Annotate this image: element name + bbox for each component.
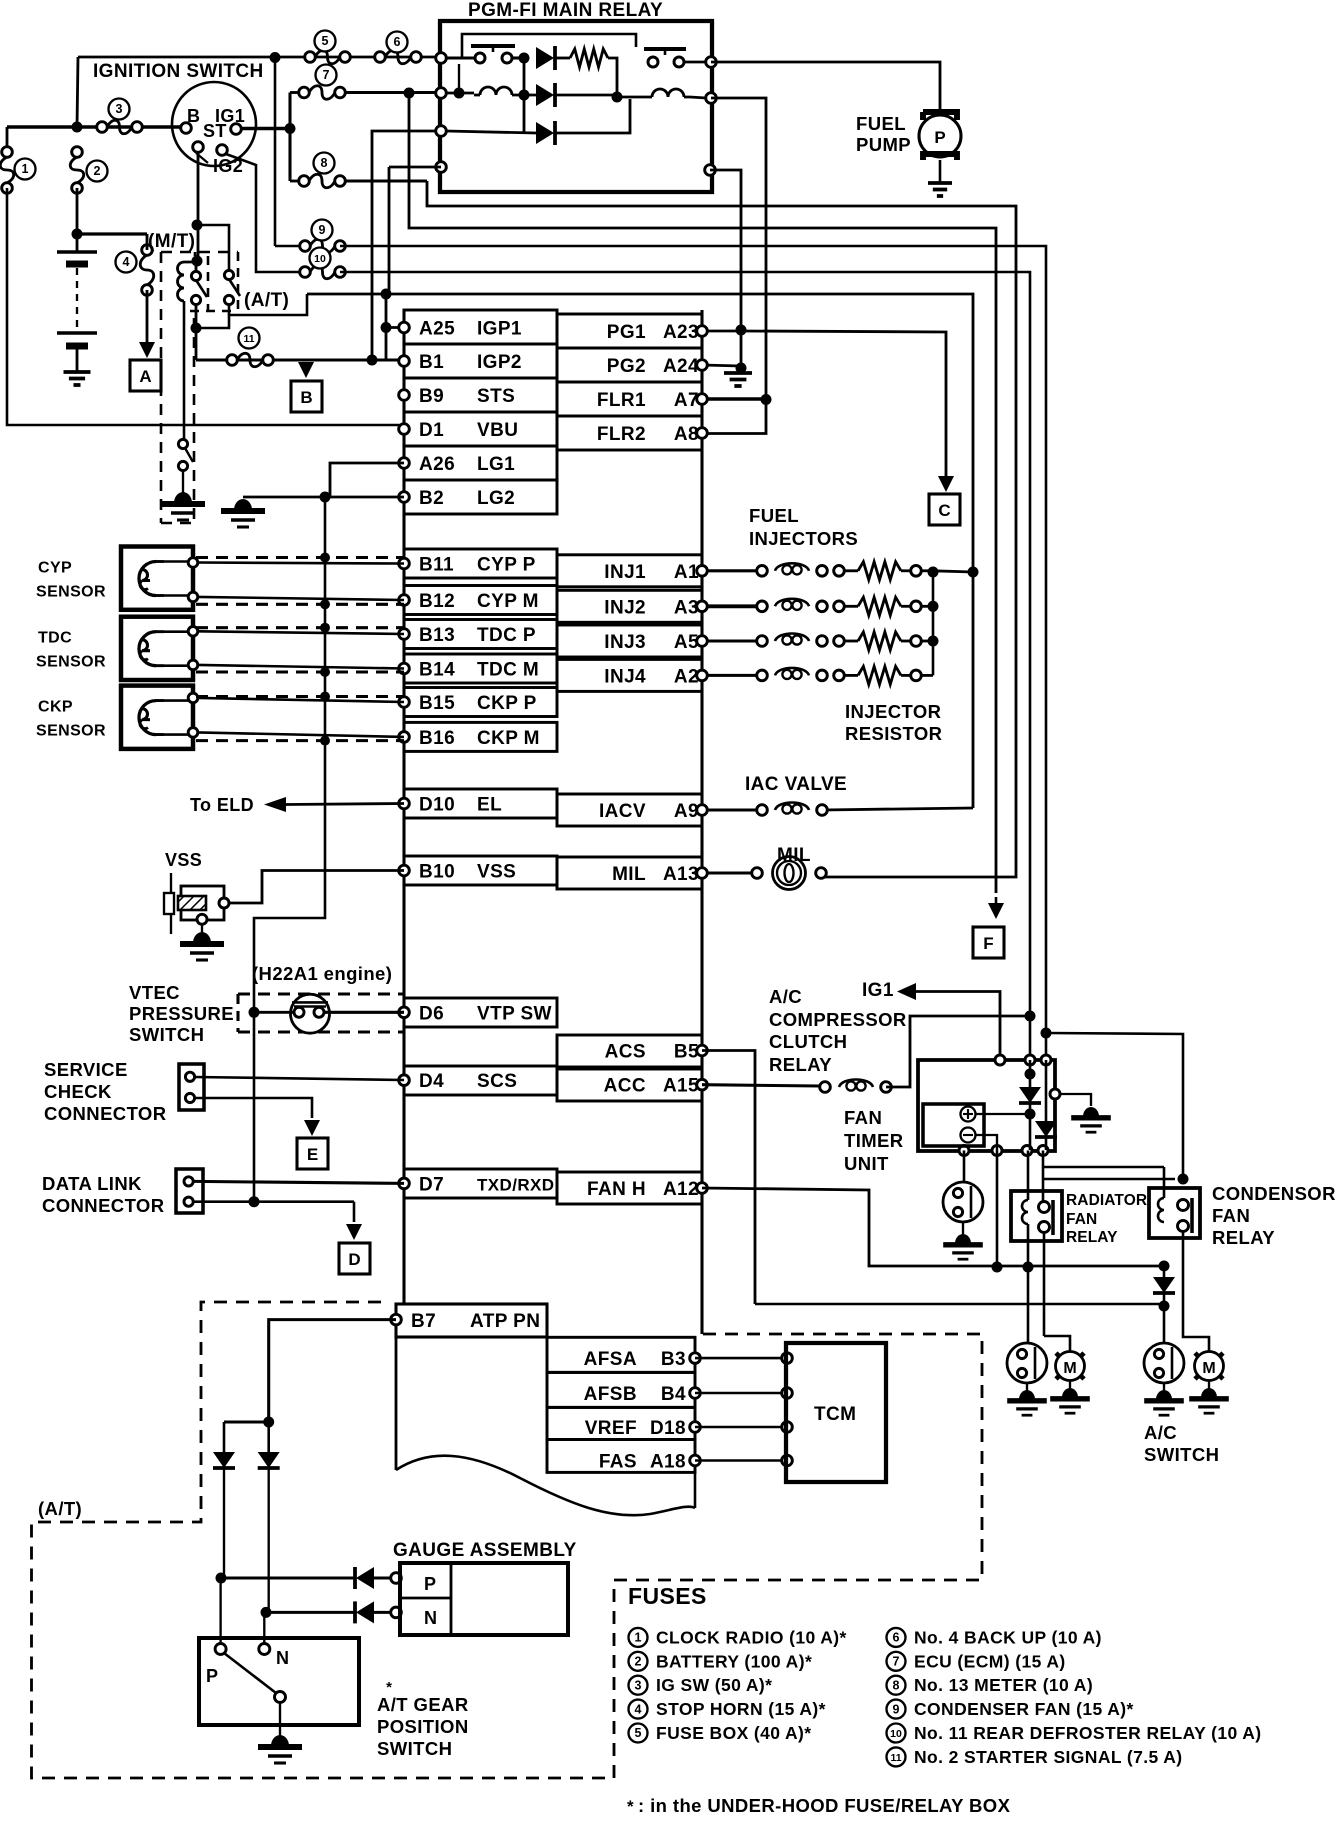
svg-text:D: D [348,1250,360,1269]
radiator fan motor [1056,1352,1085,1381]
ground ATP [258,1735,302,1763]
ECU pin B16 CKP M [399,722,557,751]
label SERVICE CHECK CONNECTOR [44,1059,167,1124]
node ACC x1030 [1025,1011,1052,1039]
ECU pin AFSB B4 [547,1372,700,1407]
wire PG1 to C [741,331,946,478]
wire diode pair top [224,1420,269,1423]
svg-text:IGP2: IGP2 [477,352,522,373]
radiator relay contact [1039,1200,1054,1235]
service check connector [179,1064,204,1110]
label (M/T) [148,231,195,252]
label FUSES [628,1583,707,1609]
IAC valve coil [707,803,827,816]
svg-text:A25: A25 [419,319,455,340]
ECU torn edge wave [396,1456,695,1516]
svg-text:TXD/RXD: TXD/RXD [477,1175,554,1194]
svg-text:A26: A26 [419,454,455,475]
wire battery feed to fuse4 [77,232,147,235]
wire CKP M [198,732,404,737]
wire rad contact [1043,1151,1070,1353]
ignition contact B [181,123,192,134]
wire LG1 [330,463,404,497]
relay wire d3 out [555,99,630,133]
label (A/T) bottom [38,1498,82,1519]
arrow to B [298,362,314,378]
svg-text:SWITCH: SWITCH [129,1024,204,1045]
wire TDC P [198,631,404,634]
svg-text:1: 1 [22,162,29,176]
svg-text:BATTERY (100 A)*: BATTERY (100 A)* [656,1651,812,1671]
ECU pin AFSA B3 [547,1337,700,1372]
svg-text:FAN: FAN [1066,1211,1097,1228]
wire condensor coil feed [1044,1166,1164,1169]
box B [291,381,322,412]
svg-text:TCM: TCM [814,1404,856,1425]
fuse F9 label [312,220,333,241]
wire N row [266,1611,355,1614]
fuse F11 STARTER SIGNAL [227,353,274,367]
svg-text:SWITCH: SWITCH [1144,1444,1219,1465]
box C [929,494,960,525]
svg-text:B2: B2 [419,488,444,509]
svg-text:B1: B1 [419,352,444,373]
AC relay coil [820,1080,892,1093]
svg-text:EL: EL [477,795,502,816]
box D [339,1243,370,1274]
gauge diode P [355,1567,401,1589]
svg-text:RADIATOR: RADIATOR [1066,1192,1147,1209]
wire IGP1 feed [381,289,405,361]
svg-text:(M/T): (M/T) [148,231,195,252]
ECU pin B13 TDC P [399,620,557,649]
VTEC pressure switch [291,994,330,1033]
svg-text:E: E [307,1145,318,1164]
wire MT coil down [183,301,186,440]
fan timer top pins [995,1055,1051,1065]
fuse F8 label [314,153,335,174]
wire B7 ATP [263,1320,396,1428]
label gauge P [424,1574,436,1594]
relay edge pins right [705,57,717,176]
wire LG2 [243,492,404,503]
wire cond motor [1183,1232,1209,1352]
svg-text:FAS: FAS [599,1452,637,1473]
svg-text:7: 7 [323,68,330,82]
svg-text:B9: B9 [419,386,444,407]
svg-text:CYP M: CYP M [477,591,539,612]
wire VBU backup line [7,188,404,429]
ECU pin PG2 A24 [557,348,707,382]
ground fuel pump [928,183,952,196]
MIL lamp [707,857,826,890]
AT diode N [258,1422,280,1612]
svg-text:CYP P: CYP P [477,555,536,576]
legend fuse 11 [887,1747,1183,1767]
node FLR1 [761,394,772,405]
svg-text:9: 9 [893,1702,900,1716]
svg-text:B: B [187,106,200,126]
ECU pin IACV A9 [557,794,707,826]
ground VSS [180,932,224,960]
relay contact1 [471,46,515,63]
wire ACC row [702,1085,820,1086]
svg-text:11: 11 [890,1752,901,1764]
relay diode stack feed [519,58,530,133]
ECU pin B10 VSS [399,856,557,885]
wire VSS [228,871,404,904]
svg-text:IGP1: IGP1 [477,319,522,340]
svg-text:INJ4: INJ4 [604,666,646,687]
wire VSS ground [201,924,203,934]
condensor fan motor [1195,1352,1224,1381]
relay wire res out [608,58,623,103]
fuse F11 label [239,328,260,349]
ECU pin ACC A15 [557,1069,707,1101]
ground cond motor [1189,1380,1229,1413]
ground battery [64,372,91,385]
wire fan timer out1 [996,1151,999,1268]
label GAUGE ASSEMBLY [393,1540,577,1561]
svg-text:VSS: VSS [477,862,516,883]
svg-text:A/C: A/C [769,986,802,1007]
svg-text:DATA LINK: DATA LINK [42,1173,142,1194]
svg-text:4: 4 [635,1702,642,1716]
wire fuse9 row [275,245,305,248]
node fuse11 x372 [367,355,378,366]
wire TCM B3 [695,1353,792,1364]
svg-text:D10: D10 [419,795,455,816]
fuse F6 BACK UP [375,50,422,64]
fan timer bottom pins [959,1146,1048,1156]
svg-text:PG2: PG2 [607,356,646,377]
svg-text:P: P [424,1574,436,1594]
svg-text:ATP PN: ATP PN [470,1311,540,1332]
radiator relay coil [1022,1200,1028,1224]
svg-text:SENSOR: SENSOR [36,723,106,740]
svg-text:*: * [627,1797,634,1816]
fuse F8 METER [299,174,346,188]
wire relay167 down [388,167,391,294]
label PGM-FI MAIN RELAY [468,0,663,21]
legend fuse 4 [629,1699,826,1719]
ground fan timer [1071,1107,1111,1132]
fan timer diode D5 [1035,1060,1057,1150]
fuse F9 CONDENSER FAN [300,239,346,253]
svg-text:1: 1 [635,1631,642,1645]
svg-text:A/T GEAR: A/T GEAR [377,1694,469,1715]
svg-text:PUMP: PUMP [856,134,911,155]
relay wire d2 out [555,94,617,97]
relay coil2 [646,89,690,97]
fuse F10 label [310,248,331,269]
fuse F2 BATTERY [70,147,84,194]
ECU pin A26 LG1 [399,446,557,480]
CKP sensor [121,686,198,749]
label VTEC PRESSURE SWITCH [129,982,234,1045]
legend footnote [627,1795,1011,1816]
fan timer minus [961,1128,976,1143]
label IG1 [215,106,245,126]
relay diode D2 [536,83,555,107]
label RADIATOR FAN RELAY [1066,1192,1147,1246]
svg-text:5: 5 [322,34,329,48]
wire DLC [194,1181,404,1183]
relay diode D3 [536,121,555,145]
svg-text:C: C [938,501,950,520]
radiator fan relay box [1011,1191,1062,1241]
wire fuse9 feed [274,58,277,247]
wire To ELD [264,797,404,812]
ECU pin B15 CKP P [399,688,557,717]
label ATP N [276,1648,289,1668]
label IAC VALVE [745,774,847,795]
svg-text:VREF: VREF [585,1418,637,1439]
svg-text:A1: A1 [674,562,699,583]
arrow to E [304,1120,320,1136]
TCM box [786,1343,886,1482]
ECU edges [404,310,702,1334]
svg-text:11: 11 [243,333,254,345]
ground rad sensor [1007,1383,1047,1415]
label CYP SENSOR [36,560,106,601]
wire relay to FLR [711,98,766,399]
fuel injector INJ2 [707,597,921,615]
ground rad motor [1050,1380,1090,1413]
svg-text:VBU: VBU [477,420,518,441]
wire rad coil [1027,1151,1030,1268]
svg-text:FUEL: FUEL [856,113,906,134]
AT gear position switch box [199,1638,359,1725]
wire CYP M [198,597,404,600]
TDC sensor [121,617,198,680]
relay wire bottom edge ST [389,166,441,169]
fan timer unit box [918,1060,1055,1151]
fuse F4 label [116,252,137,273]
svg-text:PRESSURE: PRESSURE [129,1003,234,1024]
svg-text:STS: STS [477,386,515,407]
legend fuse 10 [887,1723,1262,1743]
svg-text:FAN H: FAN H [587,1179,646,1200]
fuse F2 label [87,161,108,182]
svg-text:10: 10 [314,253,326,265]
wire TCM B4 [695,1388,792,1399]
fuse F6 label [387,32,408,53]
svg-text:(A/T): (A/T) [244,290,289,311]
radiator fan sensor [1007,1343,1047,1383]
node fuse56 [270,52,281,63]
svg-text:CONNECTOR: CONNECTOR [44,1103,167,1124]
dashed box MT [161,252,238,523]
ECU pin INJ2 A3 [557,590,707,622]
svg-text:ACS: ACS [605,1042,646,1063]
wire FAN H [702,1188,1164,1266]
svg-text:CKP M: CKP M [477,728,540,749]
svg-text:ST: ST [203,121,227,141]
node fanh1 [992,1261,1170,1273]
svg-text:6: 6 [893,1631,900,1645]
svg-text:FAN: FAN [1212,1205,1250,1226]
shield CKP [196,697,404,741]
wire TDC M [198,665,404,669]
label (A/T) [244,290,289,311]
label ATP P [206,1666,218,1686]
MT clutch coil S [178,262,197,301]
svg-text:No. 11 REAR DEFROSTER RELAY (1: No. 11 REAR DEFROSTER RELAY (10 A) [914,1723,1261,1743]
svg-text:A9: A9 [674,801,699,822]
svg-text:FLR2: FLR2 [597,424,646,445]
injector bus [921,567,973,676]
label DATA LINK CONNECTOR [42,1173,165,1216]
fuel injector INJ3 [707,632,921,650]
svg-text:SENSOR: SENSOR [36,584,106,601]
junction node battery row [72,122,83,133]
svg-text:INJ1: INJ1 [604,562,646,583]
svg-text:3: 3 [635,1678,642,1692]
wire relay to PG ground [710,170,741,330]
fuse F5 label [315,31,336,52]
wire fuse10 sweep to fan [340,272,1030,1060]
condensor fan relay box [1149,1188,1200,1238]
relay resistor [570,49,608,67]
fuel injector INJ4 [707,666,921,684]
svg-text:(H22A1 engine): (H22A1 engine) [252,963,392,984]
wire IG2 down [192,152,203,267]
svg-text:No. 2 STARTER SIGNAL (7.5 A): No. 2 STARTER SIGNAL (7.5 A) [914,1747,1183,1767]
svg-text:RELAY: RELAY [1212,1227,1275,1248]
data link connector [176,1169,203,1213]
svg-text:CKP P: CKP P [477,693,537,714]
wire AT switch feed [197,225,229,270]
fan timer plus [961,1107,976,1122]
svg-text:2: 2 [635,1655,642,1669]
svg-text:B3: B3 [661,1349,686,1370]
relay coil1 [474,87,536,95]
legend fuse 8 [887,1675,1094,1695]
label AC COMPRESSOR CLUTCH RELAY [769,986,907,1075]
svg-text:SCS: SCS [477,1071,517,1092]
condensor relay contact [1178,1198,1193,1233]
ignition contact IG2a [193,142,204,153]
wire fuse7 row [290,91,441,94]
ECU pin MIL A13 [557,857,707,889]
svg-text:B14: B14 [419,660,455,681]
ECU pin FLR2 A8 [557,416,707,450]
svg-text:A24: A24 [663,356,699,377]
label ST [203,121,227,141]
relay wire coil2 join [617,97,706,98]
ECU pin A25 IGP1 [399,310,557,344]
svg-text:A7: A7 [674,390,699,411]
svg-text:CONDENSOR: CONDENSOR [1212,1183,1336,1204]
svg-text:IG SW (50 A)*: IG SW (50 A)* [656,1675,772,1695]
svg-text:POSITION: POSITION [377,1716,469,1737]
wire ST row [241,127,290,131]
condensor relay coil [1158,1167,1164,1222]
wire condensor contact feed [1044,1033,1189,1185]
svg-text:SWITCH: SWITCH [377,1738,452,1759]
svg-text:10: 10 [890,1728,902,1740]
wire DLC gnd [194,1196,354,1222]
AC compressor clutch coil [943,1182,983,1222]
svg-text:A12: A12 [663,1179,699,1200]
svg-text:5: 5 [635,1726,642,1740]
gauge diode N [355,1601,401,1623]
dashed box VTEC [238,994,403,1032]
svg-text:IACV: IACV [599,801,646,822]
svg-text:FUSE BOX (40 A)*: FUSE BOX (40 A)* [656,1723,812,1743]
svg-text:B7: B7 [411,1311,436,1332]
shield CYP [196,558,404,605]
fuel pump [919,112,961,182]
ECU pin B11 CYP P [399,549,557,578]
wire fuse2 to battery [72,188,83,252]
node fuse11 x386 [381,322,392,333]
wire IG1 [916,992,1000,1061]
svg-text:LG1: LG1 [477,454,515,475]
arrow to A [139,342,155,358]
fuse F5 FUSE BOX [305,50,351,64]
svg-text:B13: B13 [419,625,455,646]
svg-text:M: M [1202,1360,1215,1377]
legend fuse 9 [887,1699,1134,1719]
svg-text:PG1: PG1 [607,322,646,343]
relay contact2 [644,49,686,67]
wire P row [221,1576,355,1579]
svg-text:LG2: LG2 [477,488,515,509]
fan timer minus wire [975,1135,997,1151]
wire rad sensor down [1027,1267,1030,1343]
svg-text:VTP SW: VTP SW [477,1003,552,1024]
svg-text:A18: A18 [650,1452,686,1473]
ECU pin INJ3 A5 [557,625,707,657]
svg-text:7: 7 [893,1655,900,1669]
relay wire row2 [446,64,474,99]
shield TDC [196,628,404,672]
svg-text:A13: A13 [663,864,699,885]
node MT bottom [191,323,202,334]
ground AC clutch [943,1222,983,1259]
fan timer diode D4 [1019,1060,1041,1150]
arrow to C [938,474,954,492]
svg-text:To ELD: To ELD [190,795,254,815]
ECU pin B2 LG2 [399,480,557,514]
ECU pin INJ1 A1 [557,555,707,587]
wire x409 sweep to F [409,93,996,893]
ECU pin D6 VTP SW [399,998,557,1027]
ECU pin FAS A18 [547,1440,700,1473]
fuse F7 label [316,65,337,86]
VSS sensor [164,873,229,934]
svg-text:M: M [1063,1360,1076,1377]
svg-text:RESISTOR: RESISTOR [845,723,942,744]
svg-text:P: P [934,128,945,147]
ground cond sensor [1144,1383,1184,1415]
relay wire c2 out [684,61,706,64]
wire TCM A18 [695,1455,792,1466]
svg-text:B15: B15 [419,693,455,714]
svg-text:SERVICE: SERVICE [44,1059,128,1080]
svg-text:UNIT: UNIT [844,1153,889,1174]
svg-text:F: F [983,934,993,953]
wire TCM D18 [695,1422,792,1433]
label gauge N [424,1608,437,1628]
wire SCS [195,1077,404,1080]
ground MT clutch [161,492,205,520]
svg-text:ACC: ACC [604,1076,646,1097]
relay inner frame [462,34,636,58]
svg-text:N: N [424,1608,437,1628]
